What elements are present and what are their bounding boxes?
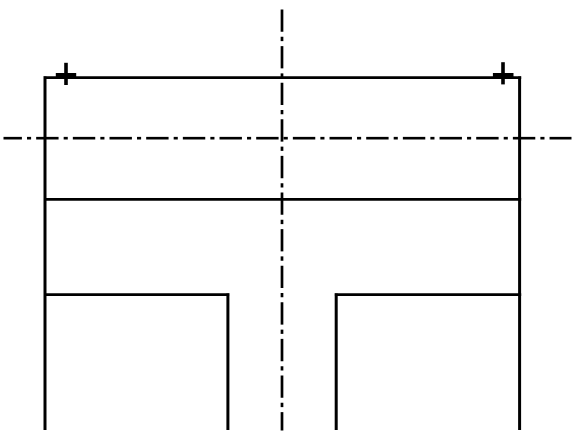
mid horizontal line — [44, 198, 522, 201]
left side wall — [44, 76, 47, 430]
left cross mark — [56, 63, 76, 85]
right cross mark — [493, 62, 514, 84]
lower-right horizontal line — [335, 293, 521, 296]
inner right vertical — [335, 293, 338, 430]
lower-left horizontal line — [44, 293, 230, 296]
horizontal centerline — [4, 137, 572, 140]
right side wall — [518, 76, 521, 430]
top edge — [44, 76, 522, 79]
inner left vertical — [226, 293, 229, 430]
vertical centerline — [281, 10, 284, 431]
